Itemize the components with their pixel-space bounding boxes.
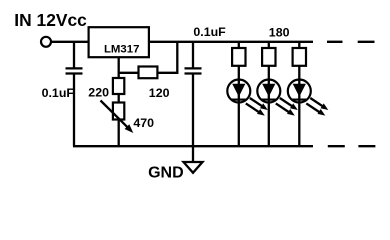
input terminal J1 (41, 37, 51, 47)
wire dash top 2 (358, 41, 375, 43)
wire C1 to ground bus (73, 75, 75, 147)
wire R1 to RV1 (118, 94, 120, 103)
wire R5 through D3 to ground bus (298, 66, 300, 146)
LED D2 (257, 80, 298, 116)
wire R3 through D1 to ground bus (238, 66, 240, 146)
svg-text:LM317: LM317 (104, 43, 139, 55)
wire pin bus to R4 (268, 42, 270, 48)
wire U1 adj pin down (118, 57, 120, 78)
resistor R2 120 (139, 67, 158, 79)
LED D1 (227, 80, 267, 116)
wire ground bus (73, 145, 313, 147)
resistor R4 180 (262, 48, 275, 66)
resistor R5 180 (293, 48, 306, 66)
wire ground stem (192, 146, 194, 162)
wire R2 to output node (157, 72, 178, 74)
wire feedback up to output bus (176, 42, 178, 73)
svg-text:120: 120 (149, 86, 170, 100)
wire pin bus to R3 (238, 42, 240, 48)
wire dash bottom 1 (328, 145, 345, 147)
svg-text:0.1uF: 0.1uF (193, 25, 226, 39)
LED D3 (288, 80, 329, 116)
svg-text:IN 12Vcc: IN 12Vcc (14, 10, 87, 30)
wire C2 to ground bus (192, 75, 194, 147)
svg-text:180: 180 (269, 26, 290, 40)
wire adj node to R2 (119, 72, 139, 74)
svg-text:220: 220 (88, 86, 109, 100)
wire RV1 to ground bus (118, 120, 120, 147)
wire input to U1 (52, 41, 89, 43)
svg-text:470: 470 (133, 116, 154, 130)
wire dash bottom 2 (358, 145, 375, 147)
resistor R1 220 (113, 78, 124, 94)
wire R4 through D2 to ground bus (268, 66, 270, 146)
wire pin bus to R5 (298, 42, 300, 48)
wire output bus (149, 41, 313, 43)
wire node IN down to C1 (73, 42, 75, 68)
ground symbol (184, 162, 203, 173)
potentiometer RV1 470 (101, 101, 134, 134)
capacitor C2 0.1uF (185, 68, 202, 73)
wire dash top 1 (327, 41, 343, 43)
capacitor C1 0.1uF (66, 68, 83, 73)
svg-text:0.1uF: 0.1uF (42, 86, 75, 100)
resistor R3 180 (232, 48, 245, 66)
wire output node down to C2 (192, 42, 194, 68)
svg-text:GND: GND (148, 165, 184, 182)
regulator U1 LM317 (89, 27, 149, 57)
